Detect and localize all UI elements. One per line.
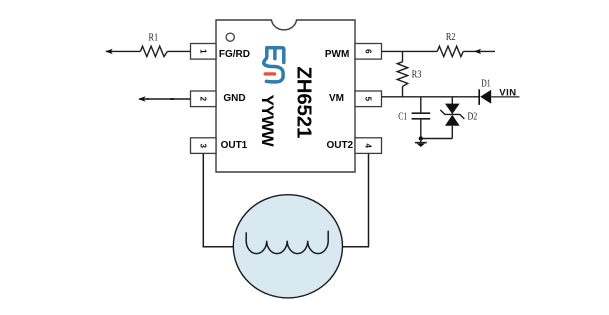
wire pin6 to R2	[382, 50, 438, 52]
svg-text:R2: R2	[446, 32, 456, 43]
wire joint tick on GND lead	[147, 98, 149, 100]
wire D2 bottom lead	[451, 126, 453, 139]
pin 4 box	[355, 138, 382, 154]
wire R3 top lead	[402, 51, 404, 61]
wire R1 to arrow	[106, 50, 140, 52]
svg-text:1: 1	[199, 49, 208, 54]
pin-1 indicator dot	[226, 33, 234, 41]
wire ground bus	[421, 138, 453, 140]
svg-text:PWM: PWM	[325, 49, 349, 60]
wire C1 top lead	[420, 97, 422, 113]
svg-text:R3: R3	[412, 69, 422, 80]
wire pin3 to motor	[203, 153, 234, 246]
arrowhead on PWM input wire	[474, 49, 481, 54]
svg-text:C1: C1	[398, 112, 407, 123]
logo orange dash	[265, 72, 274, 75]
svg-text:5: 5	[364, 97, 373, 102]
wire pin5 VM line	[382, 96, 479, 98]
wire R2 to right end	[463, 50, 495, 52]
wire R3 bottom lead	[402, 87, 404, 97]
svg-text:OUT2: OUT2	[326, 140, 353, 151]
D2 zener bar	[440, 110, 464, 119]
ground symbol	[415, 139, 427, 148]
wire joint tick on GND lead	[170, 98, 174, 100]
pin 6 box	[355, 44, 382, 60]
diode D1 triangle	[480, 90, 491, 104]
svg-text:GND: GND	[223, 93, 245, 104]
capacitor C1	[412, 113, 431, 119]
svg-text:VM: VM	[329, 93, 344, 104]
wire pin1 to R1	[167, 50, 190, 52]
wire C1 bottom lead	[420, 120, 422, 139]
svg-text:ZH6521: ZH6521	[293, 66, 316, 138]
wire D2 top lead	[451, 97, 453, 104]
junction dot ground node	[419, 136, 423, 140]
TVS diode D2 lower triangle	[445, 115, 460, 126]
op-amp U1 IC body ZH6521 outline with notch	[216, 20, 355, 172]
diode D1 cathode bar	[478, 89, 480, 105]
svg-text:YYWW: YYWW	[258, 95, 277, 147]
svg-text:2: 2	[199, 97, 208, 102]
svg-text:3: 3	[199, 143, 208, 148]
svg-text:4: 4	[364, 143, 373, 148]
svg-text:FG/RD: FG/RD	[219, 49, 250, 60]
svg-text:VIN: VIN	[499, 88, 516, 99]
pin 3 box	[191, 138, 217, 154]
arrowhead left of R1	[105, 49, 112, 54]
svg-text:R1: R1	[149, 33, 159, 44]
pin 2 box	[191, 91, 217, 107]
TVS diode D2 upper triangle	[445, 104, 460, 115]
resistor R3	[397, 62, 407, 87]
logo mark on U1	[264, 48, 284, 82]
resistor R2	[437, 46, 463, 56]
svg-text:D1: D1	[481, 79, 491, 90]
svg-text:6: 6	[364, 49, 373, 54]
arrowhead on GND lead	[138, 96, 145, 101]
wire pin4 to motor	[342, 153, 369, 246]
svg-text:OUT1: OUT1	[221, 140, 248, 151]
pin 1 box	[191, 44, 217, 60]
svg-text:D2: D2	[468, 111, 478, 122]
motor winding coil	[246, 231, 328, 253]
resistor R1	[140, 46, 167, 56]
pin 5 box	[355, 91, 382, 107]
wire pin2 GND lead	[139, 98, 191, 100]
motor M body	[233, 195, 342, 298]
wire D1 to VIN	[491, 96, 519, 98]
